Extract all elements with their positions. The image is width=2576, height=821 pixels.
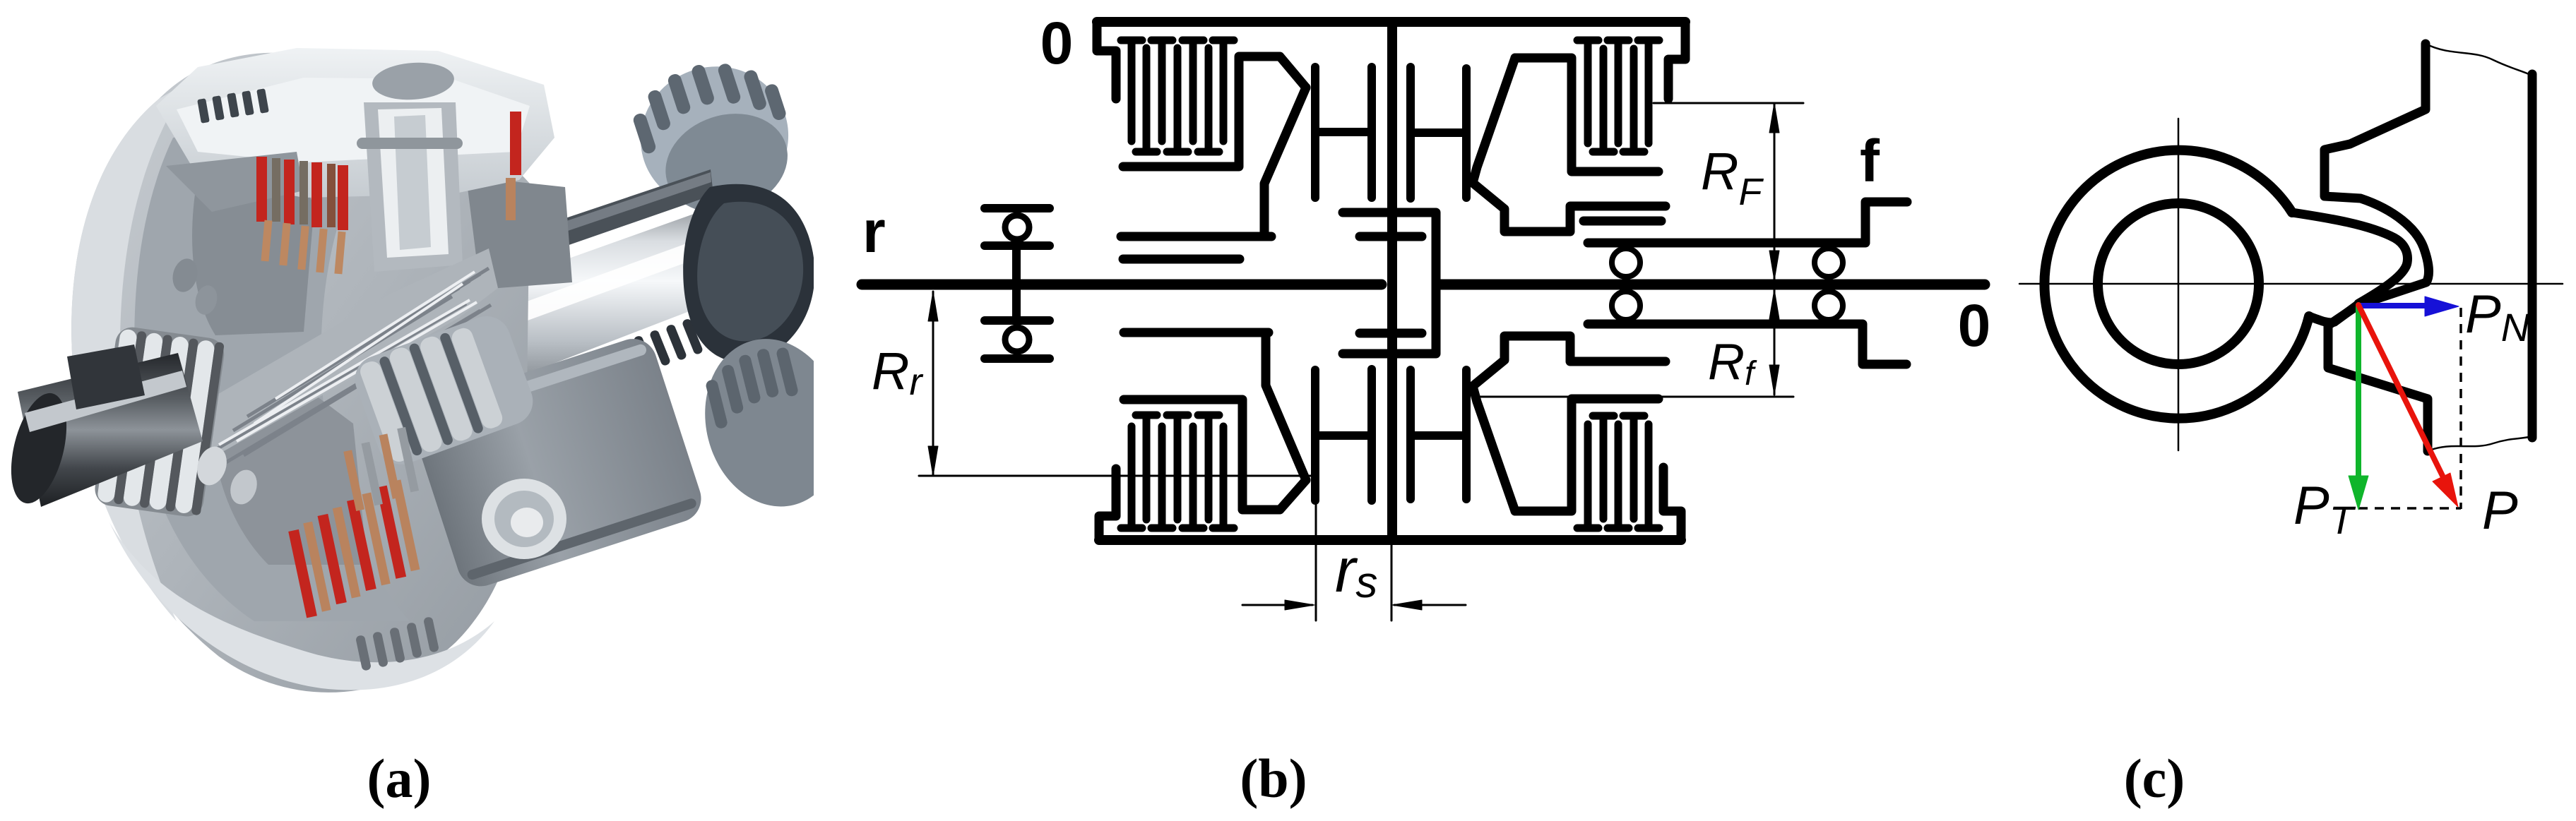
sun gear I-coupling top bar xyxy=(1360,232,1422,241)
gear mesh H2 lower left plate xyxy=(1406,370,1415,499)
dimension R_r reference line xyxy=(919,475,1317,477)
lower-left spline bar xyxy=(1124,328,1269,337)
clutch pack upper-right : inner plates with bottom tabs xyxy=(1593,49,1644,152)
clutch pack lower-left : outer plates with bottom tabs xyxy=(1121,426,1234,528)
horizontal centerline xyxy=(2019,283,2563,285)
dimension R_f reference line xyxy=(1479,396,1793,398)
dark gear mass right xyxy=(683,184,814,362)
lower clutch red and copper plates xyxy=(283,479,425,618)
gear mesh H1 upper left plate xyxy=(1311,67,1319,198)
main housing disc xyxy=(71,53,530,693)
gear rim tooth profile xyxy=(2325,44,2428,451)
clutch pack lower-right : inner plates with top tabs xyxy=(1593,416,1644,519)
clutch pack lower-left : inner plates with top tabs xyxy=(1136,415,1219,520)
output shaft 0 with step xyxy=(1588,324,1906,364)
upper-left spline bar B xyxy=(1123,255,1240,264)
clutch pack upper-left : outer plates with top tabs xyxy=(1121,40,1234,141)
spline teeth on sleeve xyxy=(633,318,704,372)
gear mesh H1 upper bar xyxy=(1315,128,1372,136)
bottom-right frame bracket xyxy=(1663,467,1681,540)
right red plate xyxy=(510,112,521,175)
upper-left clutch drum xyxy=(1123,56,1306,167)
gear rim bottom break line xyxy=(2428,436,2532,451)
left wall bolt holes xyxy=(170,256,201,295)
svg-text:P: P xyxy=(2482,481,2518,541)
input shaft r support bearing xyxy=(985,208,1050,359)
dimension R_r line with arrows xyxy=(928,292,938,476)
bottom frame rail xyxy=(1099,535,1681,545)
shaft r centerline (left segment) xyxy=(862,280,1382,290)
bottom-left frame bracket xyxy=(1099,469,1116,540)
main bright shaft xyxy=(452,191,773,392)
gear mesh H2 upper left plate xyxy=(1406,67,1415,198)
right lower gear xyxy=(688,324,859,521)
housing rim comb teeth xyxy=(355,616,439,671)
svg-text:rs: rs xyxy=(1335,535,1377,607)
PANEL C : cam lobe engaging gear tooth with force vectors xyxy=(2019,44,2563,542)
svg-text:0: 0 xyxy=(1958,292,1991,359)
force vector P_N (blue) xyxy=(2358,296,2459,316)
cam lobe upper boundary xyxy=(2292,212,2407,304)
svg-text:PT: PT xyxy=(2293,476,2356,542)
shaft centerline (right segment to output) xyxy=(1438,280,1985,290)
interior cavity lower xyxy=(211,381,367,565)
cam lobe lower boundary xyxy=(2309,304,2358,323)
sun gear sliding sleeve box xyxy=(1343,212,1436,354)
bearing rollers between shafts xyxy=(1612,248,1843,320)
piston bore xyxy=(364,102,463,272)
clutch pack lower-right : outer plates with bottom tabs xyxy=(1577,424,1659,528)
top-left frame bracket xyxy=(1097,22,1116,99)
housing interior mid xyxy=(134,109,410,621)
svg-text:(b): (b) xyxy=(1240,748,1307,809)
force vector P_T (green) xyxy=(2349,305,2368,510)
interior dark pocket right of bore xyxy=(466,176,572,289)
gear mesh H2 lower right plate xyxy=(1462,370,1471,499)
gear rim right edge xyxy=(2528,74,2537,438)
svg-text:Rr: Rr xyxy=(872,342,923,403)
sun gear I-coupling bottom bar xyxy=(1360,329,1422,338)
interior cavity upper xyxy=(192,152,314,335)
svg-text:f: f xyxy=(1860,128,1880,194)
gear mesh H1 lower left plate xyxy=(1311,370,1319,501)
svg-text:0: 0 xyxy=(1040,10,1074,76)
lower-left clutch hub cone xyxy=(1266,332,1306,480)
svg-text:PN: PN xyxy=(2465,284,2530,349)
dashed projection vertical xyxy=(2459,308,2462,509)
vertical centerline xyxy=(2178,119,2180,450)
svg-text:r: r xyxy=(862,198,886,265)
dimension r_s arrows xyxy=(1242,600,1466,610)
force vector P (red) xyxy=(2358,305,2458,507)
lower clutch basket drum xyxy=(407,332,708,592)
svg-text:(a): (a) xyxy=(367,748,432,809)
clutch pack upper-left : inner plates with bottom tabs xyxy=(1136,48,1219,152)
lower-right clutch hub cone xyxy=(1473,336,1666,511)
upper clutch red plates xyxy=(256,157,348,230)
collar ring on input shaft xyxy=(67,344,145,409)
upper-right clutch hub cone xyxy=(1473,58,1666,232)
upper-right spline bar xyxy=(1584,217,1661,226)
bracket oval hole xyxy=(371,60,455,102)
differential spider gears xyxy=(348,309,540,471)
upper-left clutch hub cone xyxy=(1264,88,1306,236)
svg-text:RF: RF xyxy=(1701,142,1764,213)
cam ring inner circle xyxy=(2098,203,2259,364)
dimension R_F line with arrows xyxy=(1769,103,1779,280)
svg-text:(c): (c) xyxy=(2124,748,2185,809)
pin through bore xyxy=(357,138,463,149)
dimension r_s extension lines xyxy=(1316,494,1391,621)
gear mesh H2 upper bar xyxy=(1411,128,1466,137)
lower-left clutch drum xyxy=(1124,400,1306,510)
crown gear top right xyxy=(621,44,809,233)
output shaft f with step xyxy=(1588,202,1907,243)
bellows ribbed coupling xyxy=(93,325,226,519)
central input drum vertical xyxy=(1387,22,1397,540)
gear mesh H2 upper right plate xyxy=(1462,68,1471,198)
gear rim top break line xyxy=(2426,44,2532,76)
top bracket face xyxy=(177,78,530,162)
housing left rim xyxy=(71,81,189,621)
housing bottom rim bright xyxy=(109,522,494,690)
cam ring outer circle xyxy=(2044,150,2309,419)
upper clutch copper plates xyxy=(261,220,345,275)
dimension R_F reference line xyxy=(1654,102,1803,104)
upper-right clutch hub flange xyxy=(1515,58,1658,172)
lower-right clutch hub flange xyxy=(1515,399,1658,511)
gear mesh H2 lower bar xyxy=(1411,431,1466,440)
gear mesh H1 lower bar xyxy=(1315,431,1372,440)
svg-text:Rf: Rf xyxy=(1708,334,1757,392)
pinion shaft bright circle xyxy=(482,479,566,559)
clutch pack upper-right : outer plates with top tabs xyxy=(1577,40,1659,143)
bracket underside shadow xyxy=(166,152,304,212)
dimension R_f line with arrows xyxy=(1769,289,1779,395)
lower clutch copper upper group xyxy=(341,427,420,511)
gear mesh H1 lower right plate xyxy=(1367,369,1376,501)
input shaft dark xyxy=(1,353,203,509)
gear mesh H1 upper right plate xyxy=(1367,67,1376,198)
top-right frame bracket xyxy=(1668,22,1685,99)
dark sleeve above shaft xyxy=(521,169,713,260)
PANEL B : kinematic schematic of dual clutch differential xyxy=(862,10,1990,621)
dashed projection horizontal xyxy=(2358,507,2461,510)
splined shaft hub xyxy=(198,248,498,466)
top frame rail 0 xyxy=(1097,17,1685,27)
bracket slot teeth left xyxy=(197,88,269,124)
top bracket light structure xyxy=(156,48,554,198)
upper-left spline bar A xyxy=(1121,232,1271,241)
